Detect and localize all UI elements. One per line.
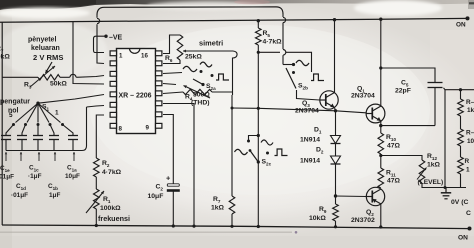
- wire S2c bus to Q1 base: [231, 107, 366, 113]
- label 50kOhm: [50, 81, 67, 88]
- svg-text:(LEVEL): (LEVEL): [418, 179, 444, 186]
- svg-text:500Ω: 500Ω: [193, 92, 210, 99]
- wire R10 node to R12: [381, 156, 422, 161]
- resistor R2 4.7k: [94, 158, 100, 177]
- wire Q3 emitter node: [334, 108, 337, 113]
- label D2: [316, 147, 324, 155]
- label LEVEL: [418, 179, 444, 186]
- switch S1 wiper lines: [16, 103, 61, 122]
- potentiometer R1 100k frek: [86, 189, 104, 213]
- svg-text:1kΩ: 1kΩ: [427, 162, 441, 169]
- switch S2b sine glyph: [296, 60, 309, 65]
- switch S2c top contact: [257, 134, 260, 137]
- label frekuensi: [98, 214, 130, 223]
- wire R5 to node: [257, 45, 260, 54]
- wire C2 to rail: [172, 191, 175, 228]
- wire R6 wiper to S2a: [233, 51, 238, 60]
- svg-text:XR – 2206: XR – 2206: [118, 93, 151, 100]
- wire R15 to bottom: [444, 174, 461, 189]
- svg-text:1: 1: [55, 110, 59, 117]
- wire R4 right to S2a frame: [212, 91, 232, 93]
- label D1: [314, 127, 322, 135]
- wire upper rail drop to IC pin2: [97, 15, 104, 64]
- wire chain left vertical: [444, 90, 446, 188]
- svg-text:frekuensi: frekuensi: [98, 214, 130, 223]
- switch S1 common node: [36, 102, 39, 105]
- label Q2: [366, 209, 374, 217]
- svg-text:R–: R–: [466, 99, 474, 106]
- wire R9 to rail: [334, 221, 337, 228]
- label R4: [185, 94, 193, 102]
- potentiometer R6 25k: [177, 35, 183, 60]
- label 1kOhm: [211, 205, 225, 212]
- capacitor bank C1a-C1e: [1, 136, 78, 140]
- potentiometer R4 500 THD: [183, 85, 212, 98]
- label S1: [42, 104, 50, 112]
- wire R3 to hop: [60, 76, 70, 78]
- wire R3 line to IC pin 3: [76, 76, 104, 78]
- label penyetel keluaran 2V RMS: [28, 37, 63, 63]
- wire left border: [1, 22, 3, 225]
- label R7 partial (left edge, cut off): [0, 46, 10, 61]
- R6 wiper arrow: [183, 50, 233, 53]
- svg-text:1μF: 1μF: [49, 192, 60, 199]
- wire R14-R15: [460, 146, 462, 157]
- switch S2a sine contact: [183, 62, 212, 73]
- label R9 val: [309, 215, 326, 222]
- wire S2a frame down to R7: [231, 95, 233, 196]
- svg-text:0V (C: 0V (C: [451, 199, 468, 206]
- wire pin13 stub: [163, 84, 176, 85]
- wire rail drop to IC pin4: [73, 22, 104, 84]
- wire R6 bottom to pin15: [163, 60, 180, 64]
- wire R2 to R1: [95, 177, 97, 189]
- label Q3 type: [295, 108, 319, 115]
- potentiometer R3: [30, 66, 60, 87]
- label 10uF: [148, 193, 164, 200]
- wire node to Q2 base: [336, 195, 367, 198]
- wire S2a to vertical: [232, 60, 234, 95]
- svg-text:1kΩ: 1kΩ: [211, 205, 225, 212]
- svg-text:·01μF: ·01μF: [0, 174, 14, 181]
- svg-text:5: 5: [9, 112, 13, 119]
- switch S2a square contact: [211, 74, 230, 80]
- label Q1: [357, 86, 365, 94]
- svg-text:pènyetel: pènyetel: [28, 37, 56, 44]
- svg-text:+: +: [166, 174, 171, 183]
- wire rail to R5: [257, 19, 260, 28]
- label R14 partial: [466, 130, 474, 146]
- label C partial: [466, 210, 471, 217]
- label position 1: [55, 110, 59, 117]
- wire R7 to rail: [230, 214, 233, 228]
- label R10: [386, 134, 396, 142]
- svg-text:1: 1: [466, 167, 470, 174]
- label 100k: [100, 205, 121, 212]
- svg-text:·1μF: ·1μF: [28, 173, 42, 180]
- wire C5 down to emitter line: [434, 88, 436, 126]
- svg-text:10μF: 10μF: [65, 173, 80, 180]
- label XR-2206: [118, 93, 151, 100]
- label C1e .01uF: [0, 165, 14, 181]
- wire D2 to node: [334, 164, 337, 198]
- label 0V: [451, 199, 468, 206]
- svg-text:47Ω: 47Ω: [387, 143, 401, 150]
- capacitor C2 10uF: [167, 184, 180, 191]
- wire R12 to bottom line: [422, 183, 466, 188]
- wire D chain top: [335, 111, 337, 136]
- svg-text:100kΩ: 100kΩ: [100, 205, 121, 212]
- switch S2b wiper: [286, 68, 296, 89]
- wire D1-D2: [335, 144, 337, 157]
- resistor R5 4.7k: [256, 28, 262, 45]
- label S2b: [298, 83, 308, 91]
- wire R5 node continue: [286, 51, 309, 53]
- wire Q1 collector to rail: [379, 18, 382, 107]
- label C1d .01uF: [11, 183, 28, 199]
- wire pin16 to R6 top: [163, 35, 180, 54]
- svg-text:4·7kΩ: 4·7kΩ: [102, 169, 122, 176]
- svg-text:16: 16: [141, 53, 148, 60]
- wire chain resistor column top: [460, 90, 462, 99]
- wire -VE loop: [103, 52, 104, 54]
- svg-text:–VE: –VE: [109, 35, 123, 42]
- resistor R11 47: [378, 168, 384, 188]
- svg-text:·01μF: ·01μF: [11, 192, 28, 199]
- pin 1 label: [119, 53, 123, 60]
- wire bottom ground rail: [2, 225, 471, 229]
- label R1: [103, 196, 111, 204]
- svg-text:50kΩ: 50kΩ: [0, 54, 10, 61]
- transistor Q1 2N3704: [366, 104, 385, 123]
- svg-text:simetri: simetri: [199, 39, 223, 48]
- label 22pF: [395, 88, 411, 95]
- label 25kOhm: [185, 54, 202, 61]
- label R5: [263, 30, 271, 38]
- wire R13-R14: [460, 116, 462, 129]
- svg-text:1N914: 1N914: [300, 137, 320, 144]
- svg-text:9: 9: [146, 125, 150, 132]
- svg-text:25kΩ: 25kΩ: [185, 54, 202, 61]
- label THD: [191, 100, 210, 107]
- resistor R13 (cut): [458, 99, 464, 116]
- wire S2c branch: [247, 136, 258, 143]
- label Q3: [302, 100, 310, 108]
- wire R1 to ground rail: [95, 209, 98, 227]
- wire capacitor bottom bus: [6, 146, 87, 151]
- svg-text:pengatur: pengatur: [0, 99, 30, 106]
- label C2: [156, 184, 164, 192]
- svg-text:1: 1: [119, 53, 123, 60]
- op-amp IC U1 XR-2206 body: [117, 49, 156, 134]
- switch S2c sine left glyph: [235, 149, 248, 154]
- resistor R10 47: [378, 133, 384, 154]
- wire Q2 emitter to rail: [379, 204, 382, 229]
- svg-text:8: 8: [119, 126, 123, 133]
- pin 9 label: [146, 125, 150, 132]
- pin 8 label: [119, 126, 123, 133]
- label R6: [165, 55, 173, 63]
- label C2 plus: [166, 174, 171, 183]
- svg-text:R: R: [465, 158, 470, 165]
- svg-text:10μF: 10μF: [148, 193, 164, 200]
- resistor R7 1k: [229, 196, 235, 214]
- capacitor C5 22pF: [428, 83, 443, 88]
- node -VE: [104, 35, 122, 42]
- label C1b 1uF: [48, 183, 60, 199]
- switch S2b wiper contact: [292, 71, 295, 74]
- label R15 partial: [465, 158, 471, 174]
- wire S1 output to IC pin 5: [38, 95, 104, 104]
- wire bottom rail end terminal: [468, 227, 472, 231]
- label arrows under bus: [5, 152, 75, 161]
- label R7: [213, 196, 221, 204]
- svg-text:4·7kΩ: 4·7kΩ: [263, 39, 283, 46]
- resistor R9 10k: [333, 196, 339, 221]
- wire R3 output line left: [2, 76, 38, 78]
- label 500: [193, 92, 210, 99]
- ground symbol: [441, 188, 451, 199]
- label R9: [319, 206, 327, 214]
- wire pin12 to R4: [163, 92, 183, 94]
- wire Q1 emitter line: [379, 121, 435, 133]
- label S2c: [262, 159, 272, 167]
- diode D1 1N914: [331, 136, 341, 144]
- svg-text:R–: R–: [466, 130, 474, 137]
- label simetri: [199, 39, 223, 48]
- wire pin7 to divider: [96, 115, 104, 158]
- resistor R14 (cut): [458, 129, 464, 146]
- wire top rail end terminal: [466, 16, 470, 20]
- pin 16 label: [141, 53, 148, 60]
- label R3: [24, 82, 32, 90]
- switch S1 contact dots: [12, 123, 64, 126]
- wire top supply rail: [0, 18, 468, 22]
- label D2 type: [300, 158, 320, 165]
- switch S2c square glyph: [275, 149, 288, 156]
- wire pin11 drop to rail: [163, 104, 196, 228]
- wire R5 node right: [258, 51, 280, 53]
- wire to S2b square contact: [309, 52, 312, 72]
- wire pin14 to sine contact: [163, 73, 182, 74]
- wire upper rail drop (hops): [283, 14, 286, 65]
- resistor R15 (cut): [458, 157, 464, 174]
- wire pin10 to C2: [163, 115, 173, 185]
- faint smudge line bottom: [0, 232, 292, 233]
- wire chain top line: [444, 88, 474, 91]
- wire R10-R11 node: [379, 154, 382, 168]
- label C1c .1uF: [28, 165, 42, 181]
- wire S2b to Q3 base: [297, 90, 320, 100]
- svg-text:ON: ON: [456, 22, 466, 29]
- potentiometer R12 1k LEVEL: [417, 160, 427, 183]
- label R11 val: [387, 178, 401, 185]
- svg-text:22pF: 22pF: [395, 88, 411, 95]
- wires capacitors to bottom bus: [6, 140, 73, 151]
- svg-text:10kΩ: 10kΩ: [309, 215, 326, 222]
- label pengatur nol: [0, 99, 30, 115]
- wire S2c vertical: [257, 52, 260, 228]
- svg-text:10: 10: [467, 138, 474, 145]
- label ON (top right switch): [456, 22, 466, 29]
- svg-text:1N914: 1N914: [300, 158, 320, 165]
- IC pin stubs: [110, 51, 162, 128]
- transistor Q2 2N3702 (pnp): [366, 187, 384, 205]
- label R12: [427, 153, 437, 161]
- label C1a 10uF: [65, 165, 80, 181]
- svg-text:2N3704: 2N3704: [295, 108, 319, 115]
- label R10 val: [387, 143, 401, 150]
- svg-text:1k: 1k: [467, 107, 474, 114]
- switch S2a wiper: [193, 79, 205, 86]
- diode D2 1N914: [331, 156, 341, 164]
- wire hop over vertical: [70, 74, 76, 77]
- label R2: [102, 160, 110, 168]
- label position 5: [9, 112, 13, 119]
- label D1 type: [300, 137, 320, 144]
- transistor Q3 2N3704: [320, 91, 338, 109]
- top scan band: [0, 0, 474, 10]
- wire upper -VE rail: [97, 7, 283, 15]
- label S2a: [206, 83, 216, 91]
- switch S2c wiper: [249, 149, 269, 163]
- svg-text:47Ω: 47Ω: [387, 178, 401, 185]
- svg-text:ON: ON: [458, 235, 468, 242]
- wire bus vertical up to IC pin 6: [87, 106, 105, 147]
- svg-text:50kΩ: 50kΩ: [50, 81, 67, 88]
- switch S2c sine right glyph: [261, 140, 273, 145]
- wires S1 contacts to capacitors: [6, 125, 73, 136]
- svg-text:2N3702: 2N3702: [351, 217, 375, 224]
- svg-text:2 V RMS: 2 V RMS: [33, 53, 63, 62]
- wire collector branch to C5: [379, 66, 435, 82]
- label 4-7k: [102, 169, 122, 176]
- wire Q3 collector to rail: [333, 18, 336, 93]
- adjust arrow to R3 wiper: [46, 62, 53, 73]
- label R12 val: [427, 162, 441, 169]
- label ON (bottom right switch): [458, 235, 468, 242]
- label C5: [401, 80, 409, 88]
- label Q2 type: [351, 217, 375, 224]
- label R13 partial: [466, 99, 474, 114]
- svg-text:keluaran: keluaran: [31, 45, 60, 52]
- label R11: [386, 170, 396, 178]
- wire S2b sine branch: [283, 63, 295, 66]
- svg-text:C: C: [466, 210, 471, 217]
- wire -VE loop: [94, 36, 107, 52]
- switch S2b square glyph: [311, 74, 324, 81]
- label 4-7kOhm: [263, 39, 283, 46]
- label Q1 type: [351, 93, 375, 100]
- svg-text:2N3704: 2N3704: [351, 93, 375, 100]
